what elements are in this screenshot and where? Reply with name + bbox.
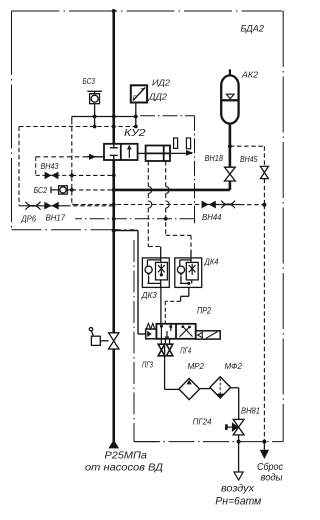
wire: drain line down to Сброс — [263, 205, 265, 442]
valve ВН81 (3-way) — [233, 419, 244, 435]
svg-text:МР2: МР2 — [188, 362, 205, 371]
svg-text:воды: воды — [261, 473, 284, 484]
svg-text:Р25МПа: Р25МПа — [105, 450, 148, 462]
wire: pilot right leg КУ2 to ДК4 (dashed with hops) — [166, 161, 191, 250]
wire: dashed branch to ВН45 — [230, 145, 265, 147]
ДК4 inner valve symbol — [189, 264, 196, 275]
svg-text:БДА2: БДА2 — [241, 24, 265, 34]
wire: ВН44 drain line y=204.5 — [72, 203, 74, 205]
svg-text:воздух: воздух — [221, 483, 255, 495]
ПР2 body — [156, 324, 195, 339]
manual valve on main line — [89, 328, 119, 350]
КУ2 pilot box — [146, 146, 170, 162]
throttle ДР6 — [26, 202, 41, 210]
ПР2 right solenoid box — [196, 331, 221, 339]
plug ПГ4 — [169, 339, 171, 344]
ДК3 inner valve symbol — [158, 264, 165, 275]
svg-text:ВН18: ВН18 — [205, 154, 224, 163]
outlet arrow воздух (open triangle down) — [234, 472, 243, 480]
wire: sensors connection line y=116.5 — [72, 116, 136, 118]
junction on frame top — [112, 9, 116, 13]
junctions — [93, 115, 97, 119]
svg-text:ПГ4: ПГ4 — [180, 347, 191, 356]
wire: thick line АК2 to ВН18 and to main line — [229, 146, 232, 167]
wire: ДК3 to ПР2 — [160, 287, 162, 324]
ПР2 cell1 internals — [161, 324, 170, 339]
outlet arrow Сброс воды (filled down) — [260, 450, 269, 459]
valve ВН45 — [260, 166, 268, 178]
svg-text:БС2: БС2 — [34, 186, 48, 195]
svg-text:ВН17: ВН17 — [46, 214, 66, 223]
accumulator АК2 — [221, 75, 238, 123]
wire between МР2 и МФ2 — [200, 388, 210, 390]
svg-text:ВН45: ВН45 — [240, 155, 258, 164]
svg-text:ДР6: ДР6 — [21, 215, 37, 224]
wire: pilot left leg КУ2 to ДК3 (dashed with hops) — [148, 161, 160, 247]
check unit ДК3 — [142, 258, 169, 288]
valve ВН43 (filled bowtie) — [45, 172, 52, 180]
plug ПГ3 — [160, 339, 162, 344]
ПР2 cell2 internals (crossed arrows) — [180, 326, 193, 337]
svg-text:ПР2: ПР2 — [197, 306, 211, 316]
filter МФ2 (diamond) — [210, 377, 231, 398]
ПР2 spring — [146, 323, 155, 329]
КУ2 right cell arrow up — [128, 148, 130, 158]
svg-text:БС3: БС3 — [83, 77, 96, 86]
wire: МФ2 to ВН81 — [231, 387, 239, 389]
wire: ПР2 center outlet down to МР2 — [164, 339, 166, 343]
junction АК2 branch — [228, 144, 232, 148]
svg-text:МФ2: МФ2 — [225, 362, 243, 371]
КУ2 exit line with arrow — [170, 152, 192, 154]
svg-text:ПГ3: ПГ3 — [142, 361, 153, 370]
check unit ДК4 — [175, 258, 202, 288]
wire: pilot drop from sensors line to БС2 (dashed vertical x=72) — [71, 117, 73, 121]
valve ВН43 group (dashed sub-box) — [35, 157, 37, 176]
svg-text:ДК3: ДК3 — [141, 291, 158, 300]
svg-text:ПГ24: ПГ24 — [193, 418, 213, 427]
valve ВН44 (closed, filled) — [202, 201, 209, 209]
wire: ДК4 to ПР2 (stepped) — [188, 287, 190, 296]
svg-text:от насосов ВД: от насосов ВД — [85, 462, 164, 474]
arrow into КУ2 — [89, 154, 97, 160]
svg-text:КУ2: КУ2 — [124, 128, 146, 139]
svg-text:ДД2: ДД2 — [148, 93, 168, 102]
svg-text:Сброс: Сброс — [257, 461, 283, 473]
enclosure КУ2-unit boundary (dash-dot partial box) — [75, 116, 195, 219]
junctions on boundary y=218.8 — [112, 217, 116, 221]
valve ВН17 (filled) — [44, 202, 51, 210]
valve ВН18 (shut-off, open symbol) — [225, 167, 236, 181]
wire: ВН81 down to air outlet — [238, 435, 240, 472]
svg-text:ВН44: ВН44 — [202, 213, 222, 222]
svg-text:АК2: АК2 — [241, 70, 258, 80]
wire: ДР6/ВН17 line — [19, 205, 66, 207]
main pressure line Р25МПа (thick vertical) — [112, 11, 115, 441]
dashed box left edge x=19.5 — [18, 127, 20, 206]
svg-text:ДК4: ДК4 — [204, 258, 219, 267]
inlet arrow Р25МПа (filled, pointing up) — [108, 440, 119, 449]
КУ2 left cell closed ports — [110, 144, 118, 160]
wire: dashed line y=126.5 (box top) — [19, 126, 137, 128]
transducer ИД2/ДД2 (square, diagonal, P/T) — [131, 85, 147, 102]
svg-text:Рн=6атм: Рн=6атм — [215, 496, 261, 508]
svg-text:ИД2: ИД2 — [152, 79, 171, 88]
sensor БС2 — [50, 187, 52, 194]
svg-text:ВН81: ВН81 — [241, 407, 260, 416]
wire: dashed below ВН45 to junction — [263, 179, 265, 205]
enclosure frame БДА2 (dash-dot boundary) — [12, 11, 284, 442]
ПР2 left box with arrow — [146, 329, 157, 339]
throttle next to ВН44 — [221, 201, 235, 209]
separator МР2 (diamond) — [179, 378, 200, 399]
svg-text:Р: Р — [133, 95, 138, 102]
svg-text:ВН43: ВН43 — [41, 162, 59, 171]
wire: pilot line from ВН43 box into КУ2 (dashed) — [36, 156, 87, 158]
sensor БС3 (gauge: square with circle) — [87, 91, 102, 126]
connector pins (two small rects) — [174, 138, 178, 148]
wire: branch from main line to ПР2 (corner x=138) — [114, 230, 138, 232]
